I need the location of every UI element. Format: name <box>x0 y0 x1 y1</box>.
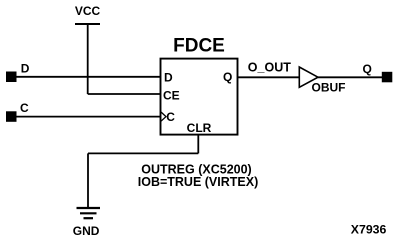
ground symbol <box>77 208 101 218</box>
wire C input <box>16 116 161 118</box>
svg-text:X7936: X7936 <box>351 222 387 236</box>
svg-text:CLR: CLR <box>187 121 212 135</box>
wire VCC vertical <box>87 24 89 94</box>
svg-text:GND: GND <box>73 224 100 238</box>
wire CLR horizontal <box>88 152 198 154</box>
wire CLR down from block <box>197 135 199 154</box>
svg-text:CE: CE <box>163 89 180 103</box>
svg-text:IOB=TRUE (VIRTEX): IOB=TRUE (VIRTEX) <box>138 175 259 189</box>
wire D input <box>16 76 161 78</box>
svg-text:C: C <box>166 110 175 124</box>
svg-text:O_OUT: O_OUT <box>248 61 291 75</box>
svg-text:FDCE: FDCE <box>173 36 225 57</box>
svg-text:Q: Q <box>223 70 232 84</box>
wire VCC to CE pin <box>88 93 161 95</box>
buffer OBUF triangle <box>299 67 318 87</box>
flip-flop U1 FDCE body <box>161 59 238 135</box>
terminal Q square <box>382 72 393 83</box>
terminal D square <box>6 72 17 83</box>
svg-text:D: D <box>164 71 173 85</box>
power VCC bar symbol <box>75 23 100 25</box>
svg-text:Q: Q <box>363 62 372 76</box>
svg-text:D: D <box>21 61 30 75</box>
svg-text:VCC: VCC <box>75 4 101 18</box>
clock pin triangle <box>161 112 166 121</box>
svg-text:C: C <box>20 101 29 115</box>
wire Q output to buffer <box>237 76 300 78</box>
svg-text:OBUF: OBUF <box>312 80 346 94</box>
terminal C square <box>6 111 17 122</box>
wire down to ground <box>87 153 89 207</box>
wire buffer to output <box>318 76 382 78</box>
